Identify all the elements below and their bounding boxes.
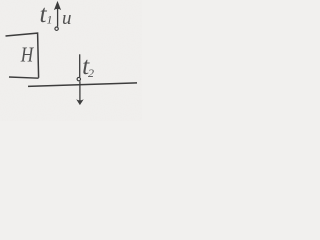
svg-text:H: H xyxy=(20,43,35,67)
svg-text:2: 2 xyxy=(88,66,94,80)
svg-text:u: u xyxy=(62,8,72,29)
svg-text:1: 1 xyxy=(47,13,53,27)
